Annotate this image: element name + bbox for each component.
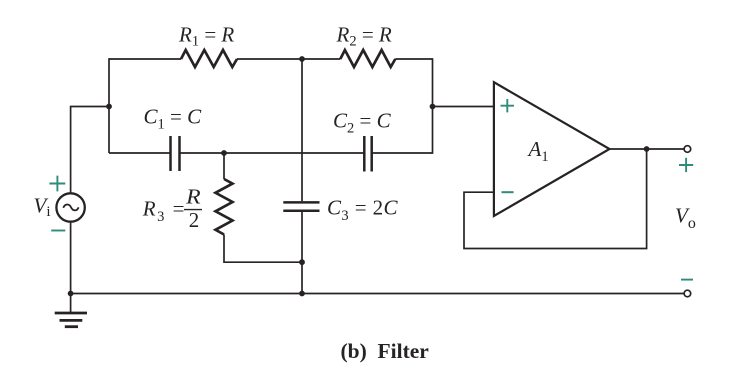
node C3 on ground bus junction dot <box>299 291 305 297</box>
wire C3 bottom lead <box>301 212 303 294</box>
terminal Vo- open circle <box>684 290 691 297</box>
resistor R2 <box>340 50 395 67</box>
node B junction dot (R1-R2 midpoint) <box>299 56 305 62</box>
source Vi sine tilde <box>63 205 78 211</box>
output minus sign <box>681 279 693 281</box>
label R3 fraction bar <box>184 209 202 211</box>
wire C1 left lead <box>109 152 170 154</box>
output plus sign <box>679 158 693 172</box>
capacitor C3 <box>283 202 319 210</box>
ground bar 2 <box>60 319 83 322</box>
svg-text:Vo: Vo <box>675 204 696 233</box>
node A junction dot (Vi tap) <box>106 104 112 110</box>
svg-text:2: 2 <box>189 208 200 232</box>
resistor R1 <box>181 50 237 67</box>
op-amp A1 triangle <box>494 82 610 216</box>
capacitor C1 <box>171 136 180 171</box>
wire to op-amp + input <box>433 106 494 108</box>
svg-text:Vi: Vi <box>34 194 51 221</box>
wire feedback loop <box>464 149 647 249</box>
wire center vertical node B to C3 <box>301 59 303 201</box>
wire Vi top branch (node A tap to source) <box>71 107 109 193</box>
source Vi circle <box>56 193 84 221</box>
wire R1 to R2 (node B segment) <box>237 58 340 60</box>
wire R3 top lead <box>223 153 225 179</box>
svg-text:A1: A1 <box>527 137 549 165</box>
ground bar 3 <box>65 325 78 328</box>
svg-text:C3 = 2C: C3 = 2C <box>327 196 399 225</box>
svg-text:R2 = R: R2 = R <box>336 23 392 50</box>
resistor R3 <box>216 179 233 235</box>
ground bar 1 <box>55 312 87 315</box>
node + input tap junction dot <box>430 104 436 110</box>
svg-text:C1 = C: C1 = C <box>144 105 203 133</box>
wire left vertical (node A down to C1 lead) <box>108 58 110 153</box>
svg-text:C2 = C: C2 = C <box>333 109 392 137</box>
wire ground bus (bottom horizontal) <box>71 293 685 295</box>
source minus sign <box>51 230 65 232</box>
op-amp minus input sign <box>502 191 514 193</box>
svg-text:R3 =: R3 = <box>142 197 186 226</box>
wire R2 right segment <box>395 58 432 60</box>
op-amp plus input sign <box>501 99 515 112</box>
ground stem <box>70 294 72 313</box>
wire R3 bottom lead <box>224 235 302 263</box>
node C junction dot (R3 tap) <box>221 150 227 156</box>
svg-text:R: R <box>185 185 201 209</box>
wire C2 right lead <box>372 152 433 154</box>
wire top horizontal left segment (node A to R1) <box>109 58 181 60</box>
source plus sign <box>49 176 65 192</box>
node output junction dot <box>644 146 650 152</box>
wire op-amp output <box>610 148 685 150</box>
node ground bus left junction dot <box>68 291 74 297</box>
svg-text:R1 = R: R1 = R <box>178 23 234 50</box>
terminal Vo+ open circle <box>684 146 691 153</box>
svg-text:(b) Filter: (b) Filter <box>341 339 430 363</box>
wire right vertical (R2 end down to C2 lead) <box>432 58 434 154</box>
wire Vi bottom lead <box>70 223 72 294</box>
wire node C (C1 to C2, carries R3 tap) <box>180 152 364 154</box>
node R3/C3 junction dot <box>299 259 305 265</box>
capacitor C2 <box>364 136 371 172</box>
